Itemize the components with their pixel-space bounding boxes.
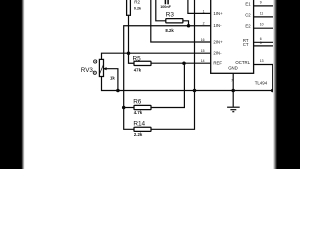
junction R3 to 1IN- (187, 24, 191, 28)
resistor R3 (166, 19, 183, 23)
capacitor 100nF left plate (164, 0, 166, 4)
svg-text:2IN+: 2IN+ (213, 39, 223, 44)
left black bar (0, 0, 25, 169)
junction OCTRL to ground rail (271, 89, 275, 93)
RV3 terminal circle bottom (93, 71, 96, 74)
svg-text:C2: C2 (245, 12, 251, 17)
svg-text:R14: R14 (133, 121, 145, 128)
svg-text:0.2k: 0.2k (134, 7, 142, 11)
junction R2 lead to 2IN- line (127, 51, 131, 55)
svg-text:2IN-: 2IN- (213, 51, 222, 56)
junction wiper to ground rail (116, 89, 120, 93)
svg-text:CT: CT (243, 42, 249, 47)
svg-text:R5: R5 (133, 55, 142, 62)
svg-text:2: 2 (203, 22, 205, 26)
svg-text:47k: 47k (134, 67, 142, 72)
svg-text:14: 14 (201, 59, 205, 63)
wire pin 9 E1 (254, 5, 278, 7)
svg-text:R6: R6 (133, 99, 142, 106)
svg-text:R2: R2 (134, 0, 140, 4)
wire vertical into pin 16 (2IN+) (151, 0, 211, 42)
wire pin 7 GND down (232, 73, 234, 107)
junction GND trunk on ground rail (193, 89, 197, 93)
svg-text:OCTRL: OCTRL (235, 60, 250, 65)
svg-text:1IN+: 1IN+ (213, 11, 223, 16)
svg-text:REF: REF (213, 61, 222, 66)
svg-text:10: 10 (260, 23, 264, 27)
svg-text:2.2k: 2.2k (134, 132, 143, 137)
svg-text:5: 5 (260, 41, 262, 45)
wire pin 6 RT (254, 41, 278, 43)
svg-text:13: 13 (260, 59, 264, 63)
wire R3 right lead down to 1IN- wire (183, 21, 189, 26)
svg-text:15: 15 (201, 49, 205, 53)
svg-text:1k: 1k (110, 76, 115, 81)
junction trunk to R6 left lead (122, 106, 126, 110)
resistor R14 (134, 127, 151, 131)
svg-text:4.7k: 4.7k (134, 110, 143, 115)
wire R2 bottom lead down to R5 left lead elbow (129, 15, 135, 63)
right black bar (273, 0, 300, 169)
svg-text:E1: E1 (245, 2, 251, 7)
resistor R5 (134, 61, 151, 65)
capacitor 100nF right plate (167, 0, 169, 4)
wire ground rail (pot bottom lead along bottom) (102, 77, 279, 91)
wire pin 11 C2 (254, 16, 278, 18)
svg-text:R3: R3 (166, 11, 175, 18)
junction REF line to R6 right riser (182, 61, 186, 64)
wire R6 left lead (124, 107, 134, 109)
svg-text:1: 1 (203, 9, 205, 13)
wire 1IN- node: pin2 line, left trunk down, R14 left lead (124, 26, 211, 130)
svg-text:1IN-: 1IN- (213, 23, 222, 28)
wire into pin 1 (1IN+) (188, 0, 211, 13)
svg-text:16: 16 (201, 38, 205, 42)
wire pin 13 OCTRL down to ground rail (254, 65, 273, 91)
potentiometer RV3 wiper arrowhead (103, 67, 107, 70)
svg-text:100nF: 100nF (160, 5, 171, 9)
wire RV3 wiper to ground rail (103, 69, 118, 91)
svg-text:E2: E2 (245, 24, 251, 29)
ground symbol (227, 107, 240, 112)
RV3 terminal circle top (94, 60, 97, 63)
wire GND vertical trunk down to R14 right lead (151, 0, 195, 129)
wire pin 10 E2 (254, 27, 278, 29)
wire R5 right lead to pin 14 (REF) (151, 62, 211, 64)
resistor R2 (127, 0, 131, 15)
wire R6 right lead riser up to REF (151, 63, 184, 107)
wire pin 5 CT (254, 45, 278, 47)
svg-text:RV3: RV3 (81, 67, 94, 74)
svg-text:11: 11 (260, 11, 264, 15)
svg-text:9: 9 (260, 1, 262, 5)
svg-text:7: 7 (231, 78, 233, 82)
wire pot top to pin 15 (2IN-) (102, 53, 211, 59)
op-amp U1 TL494 IC box (211, 0, 254, 73)
resistor R6 (134, 105, 151, 109)
junction pin 7 on ground rail (231, 89, 235, 93)
svg-text:TL494: TL494 (255, 80, 268, 85)
potentiometer RV3 body (99, 59, 103, 76)
potentiometer RV3 wiper diagonal (100, 65, 104, 74)
svg-text:GND: GND (228, 66, 238, 71)
wire vertical into R3 left lead (156, 0, 166, 21)
svg-text:8.2k: 8.2k (165, 28, 174, 33)
